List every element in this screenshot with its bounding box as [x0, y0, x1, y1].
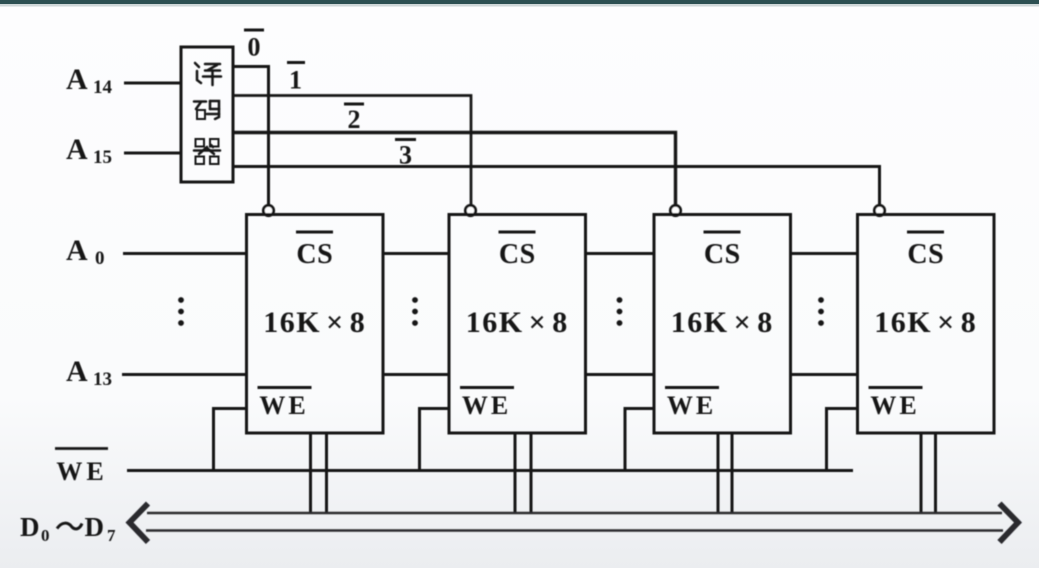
- svg-text:WE: WE: [462, 391, 511, 420]
- ellipsis dots address continuation (between U4 and U5): [818, 297, 824, 326]
- label A0: [66, 234, 105, 269]
- label A14: [66, 63, 113, 98]
- svg-text:13: 13: [93, 369, 112, 390]
- memory chip U3 box 16K×8: [449, 215, 586, 434]
- ellipsis dots address continuation (between U3 and U4): [617, 297, 623, 326]
- wire WE stub to chip U2: [214, 409, 247, 471]
- chip U5 internal labels: [869, 232, 978, 420]
- svg-text:0: 0: [95, 248, 105, 269]
- label A13: [66, 355, 112, 390]
- svg-text:CS: CS: [704, 239, 741, 270]
- decoder text 译码器 (drawn strokes): [194, 63, 221, 164]
- svg-text:WE: WE: [667, 391, 716, 420]
- svg-text:CS: CS: [907, 239, 944, 270]
- label D0~D7 data bus: [20, 512, 116, 545]
- inverter bubble chip U5 CS pin: [874, 205, 884, 215]
- svg-text:A: A: [66, 234, 88, 267]
- wire A14 input: [124, 82, 181, 85]
- svg-text:0: 0: [248, 33, 261, 62]
- svg-text:14: 14: [93, 77, 113, 98]
- label decoder output 2 (overbar 2): [344, 104, 364, 134]
- label A15: [66, 133, 112, 168]
- svg-text:16K×8: 16K×8: [466, 306, 569, 339]
- svg-text:2: 2: [348, 105, 361, 134]
- wire decoder output 0: [233, 67, 269, 206]
- chip U2 internal labels: [258, 232, 367, 420]
- wire A13 address row: [122, 373, 858, 376]
- data bus D0~D7 double arrow: [130, 504, 1019, 543]
- svg-text:WE: WE: [870, 391, 919, 420]
- svg-text:3: 3: [399, 141, 412, 170]
- wire A0 address row: [123, 252, 858, 255]
- svg-text:WE: WE: [259, 391, 308, 420]
- inverter bubble chip U3 CS pin: [465, 205, 475, 215]
- svg-text:0: 0: [41, 526, 50, 545]
- ellipsis dots address continuation (between U2 and U3): [412, 297, 418, 326]
- label decoder output 0 (overbar 0): [244, 30, 264, 62]
- svg-text:CS: CS: [499, 239, 536, 270]
- svg-text:D: D: [20, 512, 40, 542]
- inverter bubble chip U2 CS pin: [263, 205, 273, 215]
- wire decoder output 1: [233, 96, 471, 206]
- wire WE stub to chip U4: [625, 409, 654, 471]
- memory chip U5 box 16K×8: [858, 215, 995, 434]
- decoder U1 box: [181, 47, 233, 182]
- char 码: [194, 101, 219, 119]
- char 器: [194, 139, 220, 164]
- wire data lines chip U2 to bus: [311, 433, 327, 514]
- wire data lines chip U5 to bus: [921, 433, 936, 514]
- memory chip U2 box 16K×8: [247, 215, 384, 434]
- svg-text:7: 7: [107, 526, 116, 545]
- memory chip U4 box 16K×8: [654, 215, 791, 434]
- wire WE row: [127, 469, 853, 472]
- svg-text:CS: CS: [296, 239, 333, 270]
- chip U4 internal labels: [665, 232, 774, 420]
- label WE (write enable input): [55, 449, 108, 487]
- wire decoder output 3: [233, 167, 880, 206]
- svg-text:16K×8: 16K×8: [263, 306, 366, 339]
- svg-text:15: 15: [93, 147, 112, 168]
- wire WE stub to chip U5: [827, 409, 858, 471]
- svg-text:16K×8: 16K×8: [671, 306, 774, 339]
- inverter bubble chip U4 CS pin: [670, 205, 680, 215]
- char 译: [195, 63, 221, 85]
- wire data lines chip U3 to bus: [515, 433, 531, 514]
- svg-text:A: A: [66, 63, 88, 96]
- svg-text:A: A: [66, 133, 88, 166]
- wire decoder output 2: [233, 133, 676, 206]
- svg-text:A: A: [66, 355, 88, 388]
- label decoder output 3 (overbar 3): [395, 140, 416, 170]
- chip U3 internal labels: [460, 232, 569, 420]
- svg-text:1: 1: [289, 66, 302, 95]
- label decoder output 1 (overbar 1): [287, 63, 305, 95]
- svg-text:WE: WE: [56, 457, 107, 486]
- wire A15 input: [124, 152, 181, 155]
- wire data lines chip U4 to bus: [718, 433, 732, 514]
- wire WE stub to chip U3: [420, 409, 450, 471]
- svg-text:16K×8: 16K×8: [874, 306, 977, 339]
- ellipsis dots address continuation (left of chip U2): [178, 297, 184, 326]
- svg-text:D: D: [85, 512, 105, 542]
